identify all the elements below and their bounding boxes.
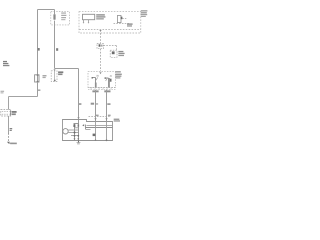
TB dashed box <box>110 50 117 57</box>
arrow wire1 into solenoid <box>94 118 96 120</box>
wire from relay pin 1 down <box>95 90 97 122</box>
splice bracket <box>9 110 11 115</box>
contact switch 1 <box>92 77 96 79</box>
solenoid winding wire 2 <box>106 122 108 141</box>
wire gauge label lower left <box>38 89 40 91</box>
arrow into connector C100 <box>54 69 56 71</box>
contact switch 2 <box>105 77 109 79</box>
busbar rectangle inside fuse block <box>83 14 95 19</box>
fuse F1 text rows <box>61 13 66 14</box>
arrow into relay box <box>99 72 101 74</box>
wire left vertical circuit 1 lower <box>37 82 39 97</box>
connector C100 wire stub and terminal <box>54 71 56 80</box>
wire circuit 2 horizontal <box>55 68 79 70</box>
dashed elbow to TB box <box>104 45 117 47</box>
component box B1 on left wire <box>35 75 39 82</box>
fuse F1 dashed box <box>51 12 70 25</box>
wire destination label left edge <box>3 61 7 62</box>
connector C100 dashed box <box>51 71 57 82</box>
starter label rows <box>114 119 120 120</box>
wire label near corner <box>1 91 5 92</box>
ground hatch below box <box>77 143 81 144</box>
fuse F2 tiny text <box>101 45 103 47</box>
wire through B1 <box>37 75 39 82</box>
feed arrow in fuse block <box>99 30 101 32</box>
starter relay coil box <box>117 16 121 23</box>
relay section dashed line <box>114 23 130 25</box>
wire left vertical circuit 1 upper <box>37 10 39 75</box>
component B1 label text <box>43 75 47 76</box>
wire label circuit 2 <box>56 48 58 51</box>
underhood fuse block dashed box <box>79 12 141 33</box>
connector row under relay box <box>88 87 115 89</box>
wire label 2 RED <box>38 48 40 51</box>
wire vertical to starter <box>78 69 80 119</box>
starter assembly box outline <box>63 120 113 141</box>
plunger contact blocks <box>73 124 75 127</box>
motor to contact rungs <box>68 130 78 136</box>
busbar label rows <box>96 14 105 15</box>
fuse F2 element <box>99 44 101 46</box>
wire dashed segment to ground <box>8 133 10 142</box>
fuse F2 dashed box <box>97 43 103 48</box>
wire into fuse F1 <box>54 10 56 15</box>
contact rail left <box>74 124 76 141</box>
pin label wire1 <box>96 115 99 117</box>
TB label rows right <box>118 51 123 52</box>
starter relay dashed link <box>122 18 126 20</box>
junction dot wire 2 <box>106 139 108 141</box>
solenoid S terminal vertical <box>85 125 87 130</box>
contact rail right / feed-through <box>78 120 80 141</box>
wire top horizontal from left branch to fuse F1 <box>38 9 55 11</box>
dashed feed down to relay box <box>100 49 102 71</box>
wire 1 label <box>91 103 94 105</box>
splice label S201 <box>12 111 17 113</box>
splice box S201 dashed <box>1 110 11 116</box>
contact top bar <box>74 123 80 125</box>
extra rung <box>75 127 79 129</box>
splice internal dashed rows <box>2 112 10 115</box>
wire vertical down to splice S201 <box>8 97 10 110</box>
fuse block connector rail dashed <box>79 29 140 31</box>
winding block on wire 1 <box>93 134 96 137</box>
wire label on starter feed <box>79 103 81 105</box>
fuse block label outside right <box>141 10 148 11</box>
solenoid second bus stub <box>86 129 91 131</box>
arrow toward plunger <box>82 124 84 126</box>
arrow starter feed into box <box>77 117 79 119</box>
wire below splice <box>8 116 10 133</box>
fuse F1 element <box>53 14 55 19</box>
contact dots <box>74 132 76 134</box>
wire 2 label <box>107 103 110 105</box>
relay contacts dashed box <box>88 72 115 88</box>
starter relay contact <box>121 17 123 20</box>
wire from relay pin 2 down <box>106 90 108 122</box>
solenoid thin rect bottom line <box>87 125 113 127</box>
ground label G103 <box>10 143 17 145</box>
relay box label rows <box>115 71 120 72</box>
pin labels under connector row <box>92 90 98 92</box>
ground G103 symbol <box>7 142 10 144</box>
wire number 850 <box>10 128 13 129</box>
solenoid winding wire 1 <box>95 122 97 141</box>
junction dot wire 1 <box>95 139 97 141</box>
busbar stub pins <box>84 20 89 23</box>
TB text inside <box>112 51 115 54</box>
solenoid bus horizontal <box>86 127 113 129</box>
wire circuit 2 vertical <box>54 21 56 69</box>
starter motor circle <box>63 129 68 134</box>
wire horizontal to splice <box>9 96 38 98</box>
arrow wire2 into solenoid <box>105 118 107 120</box>
connector C100 label <box>58 71 63 73</box>
ground stub below starter box <box>78 141 80 143</box>
starter relay label rows <box>127 23 133 24</box>
starter connector dashed row <box>89 116 112 118</box>
dashed feed to fuse F2 <box>100 33 102 43</box>
pin label wire2 <box>108 115 111 117</box>
